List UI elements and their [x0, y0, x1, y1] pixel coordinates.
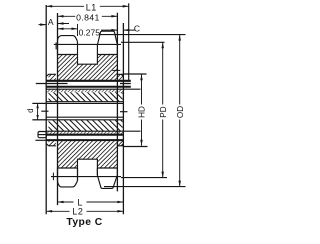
svg-text:OD: OD: [176, 106, 185, 118]
right hub chamfer line: [112, 69, 120, 71]
svg-text:L1: L1: [86, 3, 97, 13]
setscrew stub line left: [36, 83, 68, 85]
hub bottom line: [49, 145, 124, 147]
tooth bottom-left: [58, 168, 78, 187]
keyway band lower edge: [46, 101, 123, 103]
hub top-left chamfer: [46, 74, 48, 76]
svg-text:L2: L2: [72, 207, 83, 217]
svg-text:0.841: 0.841: [76, 12, 100, 22]
sprocket plate hatch top band: [58, 55, 118, 81]
dimension L2: [46, 210, 123, 212]
svg-text:Type C: Type C: [66, 217, 102, 228]
setscrew boss left midline: [38, 134, 46, 136]
tooth top-left: [58, 36, 78, 55]
left plate face vertical: [57, 13, 59, 205]
hub left column hatch bottom: [49, 140, 56, 146]
pitch line top: [54, 43, 121, 45]
keyway band lower: [49, 120, 123, 131]
right setscrew boss face vertical / L1 extension: [128, 3, 130, 81]
dimension L: [58, 201, 124, 203]
tooth bottom-right: [97, 168, 117, 188]
svg-text:0.275: 0.275: [79, 27, 101, 37]
keyway boundary line upper: [46, 88, 140, 90]
hub top-right chamfer: [121, 74, 123, 76]
keyway boundary line lower: [46, 130, 140, 132]
pitch line bottom: [51, 176, 121, 178]
left hub face vertical: [45, 5, 47, 214]
root line top: [58, 54, 118, 56]
dimension A arrows: [39, 24, 70, 25]
hub right column hatch top: [117, 74, 123, 80]
lower channel bottom line: [46, 139, 123, 141]
PD extension top: [121, 41, 165, 43]
sprocket body hatch bottom band: [58, 140, 118, 168]
PD extension bottom: [121, 177, 167, 179]
lower channel top line: [46, 134, 123, 136]
notch between plates top: [78, 55, 98, 65]
dimension d extensions: [32, 103, 46, 119]
svg-text:d: d: [26, 108, 35, 112]
fine hatch strip above lower channel: [46, 131, 123, 134]
fine hatch strip below setscrew channel: [46, 89, 123, 92]
bore bottom line: [46, 116, 123, 118]
right plate face vertical: [116, 13, 118, 192]
setscrew boss left rect: [38, 132, 46, 138]
bore top line: [32, 102, 123, 104]
0.275 extension tick: [77, 24, 79, 36]
setscrew stub line bottom-left: [35, 139, 46, 141]
dimension OD: [179, 35, 181, 187]
setscrew boss midline right: [120, 83, 131, 85]
dimension C leader: [101, 29, 135, 31]
centerline stub right: [120, 111, 128, 113]
setscrew channel top line: [46, 80, 131, 82]
OD extension top: [101, 34, 186, 36]
svg-text:C: C: [134, 24, 140, 34]
OD extension bottom: [104, 186, 186, 188]
notch between plates bottom: [78, 159, 98, 181]
svg-text:HD: HD: [138, 106, 147, 118]
right hub face vertical: [122, 23, 124, 214]
bore bottom outer line: [32, 119, 123, 121]
keyway band upper: [49, 92, 123, 101]
root line bottom: [58, 167, 118, 169]
HD extension top: [123, 73, 146, 75]
centerline stub left: [41, 110, 48, 112]
dimension L1: [46, 5, 129, 7]
HD extension bottom: [123, 146, 147, 148]
hub left column hatch top: [49, 74, 56, 80]
svg-text:PD: PD: [159, 106, 168, 117]
svg-text:A: A: [48, 17, 54, 27]
dimension 0.841: [58, 15, 118, 17]
dimension d line: [37, 103, 39, 119]
hub right column hatch bottom: [117, 140, 123, 146]
dimension PD: [162, 42, 164, 177]
tooth top-right: [97, 31, 117, 54]
hub top line: [49, 73, 124, 75]
dimension HD: [141, 74, 143, 146]
tick at hub face on bottom pitch line: [52, 173, 54, 181]
hub bottom-right chamfer: [121, 144, 123, 146]
tick at hub face on pitch line: [55, 42, 57, 49]
hub bottom-left chamfer: [46, 144, 48, 146]
setscrew channel bottom line: [46, 86, 131, 88]
dimension 0.275: [58, 28, 78, 30]
